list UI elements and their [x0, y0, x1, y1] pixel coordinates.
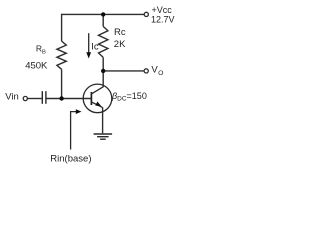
resistor R_B 450K zigzag [57, 41, 66, 69]
transistor Q1 emitter lead with arrow [91, 102, 102, 108]
terminal circle V_O [144, 69, 148, 73]
terminal circle Vin [23, 96, 27, 100]
leader arrow for Rin(base) [71, 109, 82, 149]
transistor Q1 base bar [90, 92, 92, 105]
wire Rc bottom to collector node [102, 57, 104, 71]
node junction dot at base / RB [59, 96, 63, 100]
svg-text:VO: VO [151, 65, 163, 77]
node junction dot at collector / V_O [101, 69, 105, 73]
svg-text:Vin: Vin [5, 91, 19, 102]
wire left rail bottom (RB to base node) [61, 69, 63, 98]
wire emitter down to ground [102, 107, 104, 133]
svg-text:βDC=150: βDC=150 [111, 91, 147, 103]
svg-text:RB: RB [36, 43, 46, 55]
svg-text:Rc: Rc [114, 27, 126, 38]
wire top rail from RB top to +Vcc terminal [62, 13, 144, 15]
wire left rail top (RB to top rail) [61, 14, 63, 41]
wire Vin terminal to capacitor [28, 98, 42, 100]
svg-text:Ic: Ic [91, 42, 99, 53]
current arrow Ic [86, 33, 91, 58]
terminal circle +Vcc [144, 12, 148, 16]
wire collector node down to transistor collector [102, 71, 104, 87]
resistor Rc 2K zigzag [99, 26, 108, 57]
wire right rail top (top rail to Rc) [102, 14, 104, 26]
ground symbol [94, 134, 113, 139]
transistor Q1 collector lead [91, 87, 103, 94]
svg-text:12.7V: 12.7V [151, 14, 175, 24]
node junction dot at top rail / Rc [101, 12, 105, 16]
capacitor C1 input coupling plates [42, 91, 46, 104]
svg-text:450K: 450K [25, 61, 48, 72]
svg-text:2K: 2K [114, 39, 126, 50]
wire collector node to V_O terminal [103, 70, 144, 72]
svg-text:Rin(base): Rin(base) [50, 154, 91, 165]
transistor Q1 circle [83, 84, 112, 113]
wire capacitor to base node to transistor base [47, 98, 92, 100]
